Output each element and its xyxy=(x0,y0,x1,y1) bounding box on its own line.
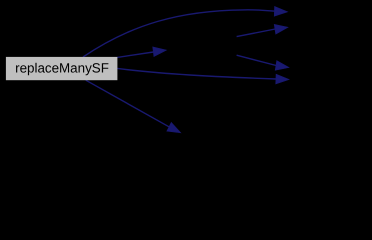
wire: long lower edge replaceManySF to right node xyxy=(117,68,276,79)
arrowhead of lower right edge xyxy=(275,61,290,73)
arrowhead of upper right edge xyxy=(274,22,289,34)
arrowhead of diagonal edge xyxy=(167,122,183,137)
node replaceManySF xyxy=(6,57,118,80)
wire: edge middle node to lower right node xyxy=(237,55,277,65)
arrowhead of long lower edge xyxy=(276,74,290,84)
wire: edge replaceManySF to top-right node xyxy=(83,10,276,57)
wire: edge replaceManySF to middle invisible node xyxy=(117,52,153,57)
arrowhead of top edge xyxy=(274,6,288,16)
arrowhead of middle edge xyxy=(153,45,167,56)
wire: diagonal edge replaceManySF to bottom node xyxy=(86,80,169,127)
wire: edge middle node to upper right node xyxy=(237,29,276,37)
svg-text:replaceManySF: replaceManySF xyxy=(15,60,109,75)
